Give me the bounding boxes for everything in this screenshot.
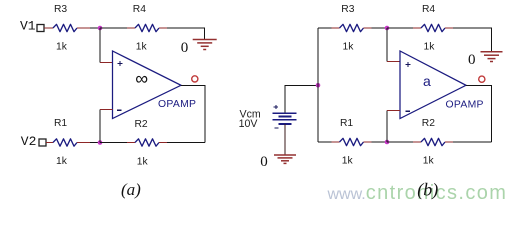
wire Vcm bottom to ground — [284, 124, 286, 155]
wire node C down to + input (b) — [387, 28, 400, 62]
ground (a) — [193, 40, 217, 50]
output pin marker (b) — [479, 76, 485, 82]
svg-text:OPAMP: OPAMP — [446, 100, 484, 111]
resistor R1 — [53, 118, 90, 167]
svg-text:R3: R3 — [341, 4, 354, 15]
svg-text:0: 0 — [468, 52, 476, 68]
ground (b) — [481, 52, 503, 62]
op-amp U1 — [113, 51, 197, 119]
wire bottom rail (b) to R1 — [318, 141, 340, 143]
svg-text:1k: 1k — [343, 42, 355, 53]
wire R3 to node A — [90, 27, 100, 29]
node D junction — [385, 140, 390, 145]
svg-text:R4: R4 — [422, 4, 435, 15]
svg-text:0: 0 — [260, 154, 268, 170]
svg-text:1k: 1k — [56, 41, 68, 52]
svg-text:10V: 10V — [239, 118, 259, 130]
wire R4 to ground corner — [167, 28, 205, 39]
svg-text:V1: V1 — [20, 19, 36, 34]
wire R1 to node D — [372, 141, 388, 143]
node C junction — [385, 26, 390, 31]
resistor R1 (b) — [340, 118, 372, 166]
svg-text:R4: R4 — [133, 4, 146, 15]
node B junction — [98, 140, 103, 145]
svg-text:OPAMP: OPAMP — [158, 99, 196, 110]
wire node D to R2 (b) — [387, 141, 421, 143]
svg-text:R2: R2 — [422, 118, 435, 129]
svg-text:1k: 1k — [137, 156, 149, 167]
svg-text:a: a — [423, 73, 431, 89]
svg-text:∞: ∞ — [135, 69, 148, 89]
resistor R2 (b) — [421, 118, 453, 166]
svg-text:1k: 1k — [423, 156, 435, 167]
svg-text:1k: 1k — [136, 42, 148, 53]
svg-text:1k: 1k — [342, 156, 354, 167]
svg-text:(b): (b) — [417, 179, 438, 200]
svg-text:R1: R1 — [340, 118, 353, 129]
resistor R4 — [133, 4, 167, 53]
wire node B to R2 — [100, 142, 135, 144]
output pin marker (a) — [192, 76, 198, 82]
svg-text:1k: 1k — [424, 42, 436, 53]
svg-text:0: 0 — [181, 40, 189, 56]
wire R2 to output corner (b) — [453, 141, 492, 143]
wire top rail (b) to R3 — [318, 27, 340, 29]
wire left vertical (b) — [317, 28, 319, 142]
svg-text:V2: V2 — [21, 134, 37, 149]
wire node A to R4 — [100, 27, 135, 29]
node A junction — [98, 26, 103, 31]
svg-text:1k: 1k — [56, 156, 68, 167]
terminal V2 — [21, 134, 46, 149]
svg-text:R1: R1 — [54, 118, 67, 129]
dc source Vcm 10V — [239, 85, 297, 130]
resistor R3 (b) — [340, 4, 372, 53]
wire node A down to + input — [100, 28, 113, 62]
ground Vcm — [274, 155, 296, 163]
wire V2 to R1 — [46, 142, 53, 144]
svg-text:(a): (a) — [121, 180, 141, 199]
watermark www.cntronics.com — [327, 182, 508, 204]
wire node D up to - input (b) — [387, 111, 400, 142]
wire node B up to - input — [100, 110, 113, 143]
wire op-amp output down to feedback (a) — [181, 85, 205, 142]
resistor R2 — [135, 119, 168, 167]
resistor R4 (b) — [421, 4, 453, 53]
wire R2 to output corner — [167, 142, 205, 144]
wire Vcm top to node — [285, 85, 318, 112]
wire V1 to R3 — [44, 27, 53, 29]
node Vcm junction — [316, 83, 321, 88]
terminal V1 — [20, 19, 44, 34]
wire node C to R4 (b) — [387, 27, 421, 29]
op-amp U2 — [400, 51, 484, 119]
svg-text:R3: R3 — [54, 4, 67, 15]
wire R4 to ground corner (b) — [453, 28, 492, 52]
wire R3 to node C — [372, 27, 388, 29]
wire op-amp output down to feedback (b) — [466, 85, 492, 142]
svg-text:R2: R2 — [135, 119, 148, 130]
resistor R3 — [53, 4, 90, 53]
wire R1 to node B — [90, 142, 100, 144]
